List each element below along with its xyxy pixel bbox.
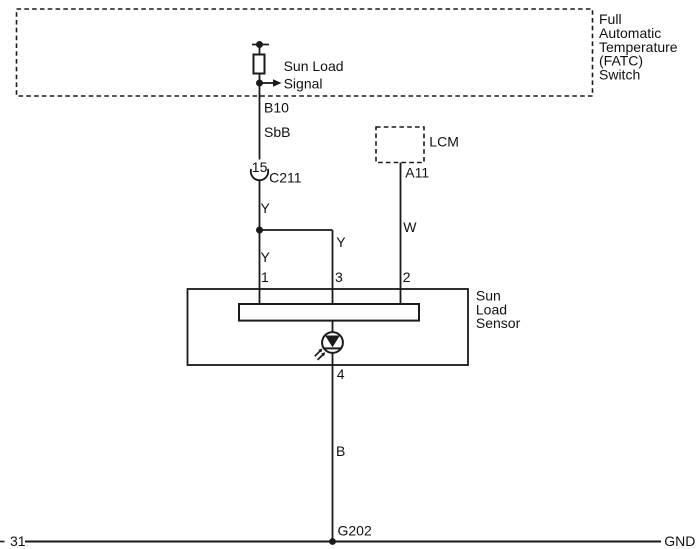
svg-text:Switch: Switch bbox=[599, 66, 640, 82]
svg-text:1: 1 bbox=[261, 269, 269, 285]
svg-text:G202: G202 bbox=[338, 523, 372, 539]
svg-text:GND: GND bbox=[664, 533, 695, 549]
svg-text:15: 15 bbox=[252, 159, 268, 175]
svg-text:3: 3 bbox=[335, 269, 343, 285]
svg-text:2: 2 bbox=[403, 269, 411, 285]
svg-text:Y: Y bbox=[261, 249, 271, 265]
svg-text:A11: A11 bbox=[405, 165, 429, 181]
svg-text:W: W bbox=[403, 219, 417, 235]
svg-text:Y: Y bbox=[261, 200, 271, 216]
svg-text:C211: C211 bbox=[269, 169, 302, 185]
svg-text:Signal: Signal bbox=[284, 76, 323, 92]
svg-text:Y: Y bbox=[336, 234, 346, 250]
svg-text:Sun Load: Sun Load bbox=[284, 58, 344, 74]
svg-text:4: 4 bbox=[337, 366, 345, 382]
svg-text:Sensor: Sensor bbox=[476, 315, 521, 331]
svg-text:B: B bbox=[336, 443, 345, 459]
svg-text:LCM: LCM bbox=[429, 133, 459, 149]
svg-text:B10: B10 bbox=[264, 99, 289, 115]
svg-text:31: 31 bbox=[10, 533, 26, 549]
svg-text:SbB: SbB bbox=[264, 124, 290, 140]
